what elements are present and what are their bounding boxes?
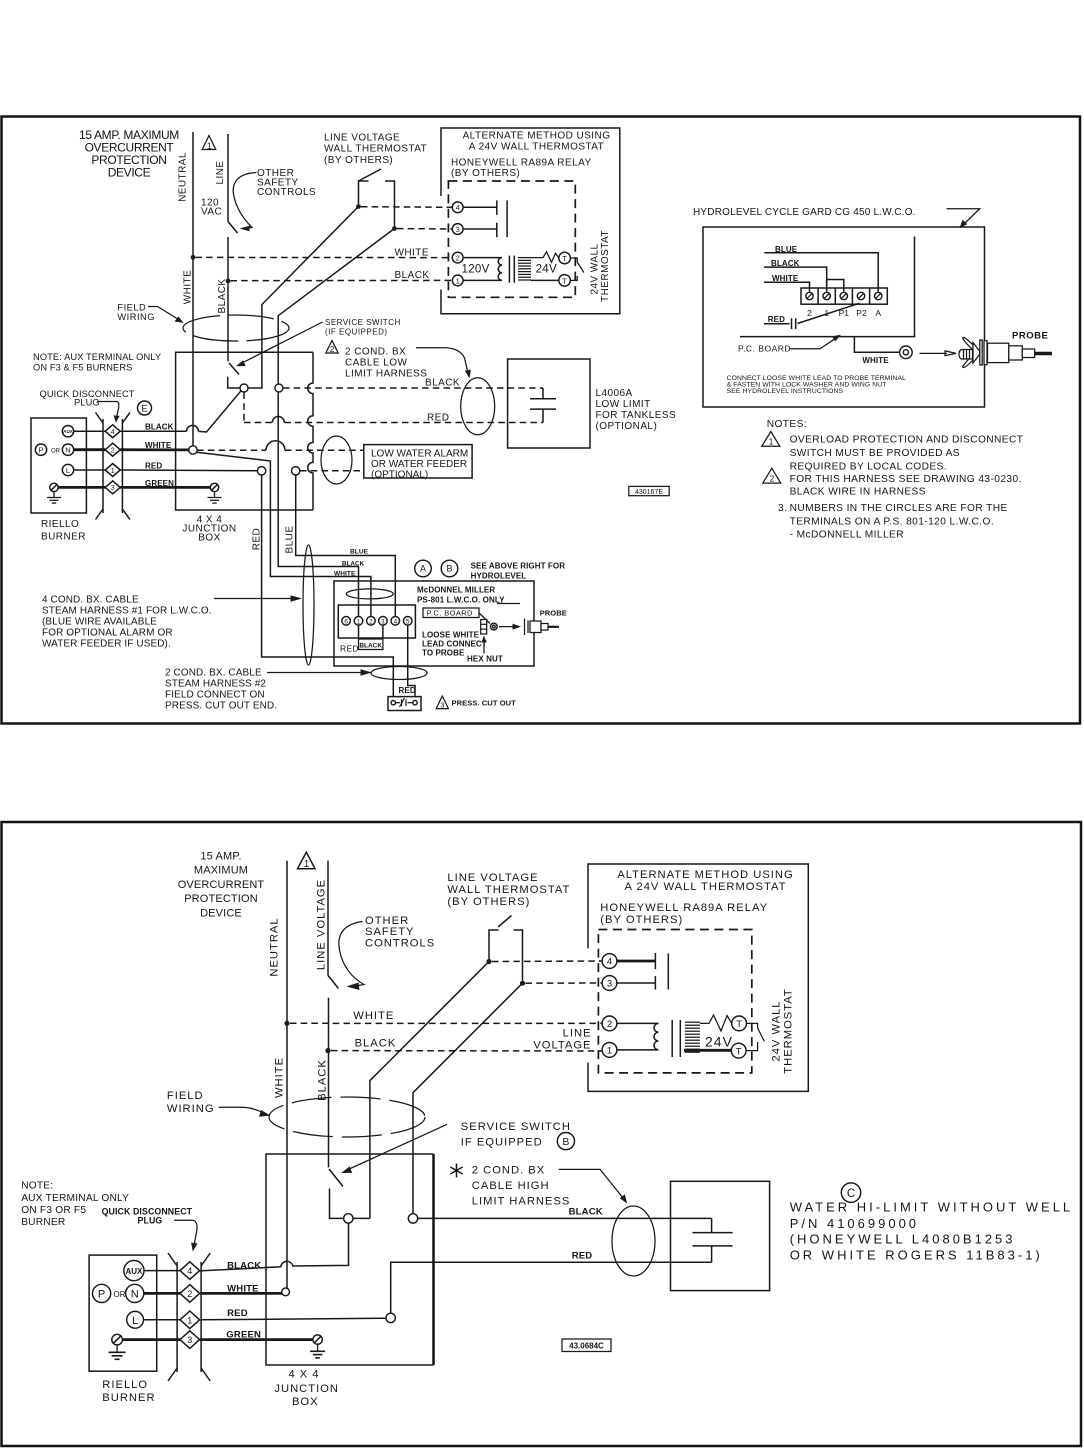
plug pin 2 diamond	[105, 443, 120, 456]
svg-text:1: 1	[187, 1315, 192, 1325]
svg-text:WHITE: WHITE	[395, 247, 429, 258]
svg-text:PLUG: PLUG	[138, 1216, 163, 1226]
svg-text:LINE: LINE	[215, 160, 226, 184]
relay contact K1 (terminal 4)	[463, 200, 497, 215]
wire N to plug 2 (bottom)	[144, 1292, 180, 1295]
svg-text:HYDROLEVEL: HYDROLEVEL	[471, 572, 527, 581]
warning triangle 3	[436, 696, 448, 710]
circled B (service switch)	[557, 1133, 574, 1150]
label LOOSE WHITE LEAD CONNECT TO PROBE	[422, 630, 487, 657]
leader curve to safety switch (bottom)	[339, 922, 364, 991]
wire L to plug 1	[74, 469, 106, 471]
svg-text:(BY OTHERS): (BY OTHERS)	[600, 914, 683, 926]
junction box ground symbol (bottom)	[310, 1344, 325, 1358]
label BLUE + wire to A	[764, 245, 878, 292]
svg-text:SEE ABOVE RIGHT FOR: SEE ABOVE RIGHT FOR	[471, 562, 566, 571]
transformer T1 primary coil 120V	[463, 258, 502, 281]
relay terminal 2 (bottom)	[602, 1016, 617, 1031]
svg-text:LOOSE WHITE: LOOSE WHITE	[422, 630, 480, 639]
relay terminal 4	[452, 202, 463, 213]
service switch blade (bottom)	[329, 1169, 343, 1187]
wire AUX to plug 4 (bottom)	[144, 1270, 180, 1272]
svg-text:BLACK: BLACK	[425, 377, 460, 388]
node dot thermostat left (bottom)	[486, 959, 491, 964]
svg-text:4: 4	[394, 618, 398, 625]
probe symbol (mcdonnel)	[525, 619, 560, 636]
svg-text:6: 6	[344, 618, 348, 625]
hex nut (mcdonnel)	[481, 620, 487, 635]
label OTHER SAFETY CONTROLS	[257, 168, 316, 198]
drawing number 43.0684C	[562, 1339, 611, 1352]
relay U2 outer box (bottom)	[588, 864, 808, 1091]
label 4 X 4 JUNCTION BOX (bottom)	[274, 1369, 339, 1408]
transformer T1 secondary coil 24V	[518, 258, 531, 280]
svg-text:4: 4	[187, 1266, 192, 1276]
leader to plug	[97, 402, 120, 423]
dashed wire white to low water alarm	[197, 449, 364, 451]
red wire to press cut out	[262, 475, 394, 697]
relay contact common bar	[506, 200, 508, 237]
svg-text:BLACK: BLACK	[355, 1038, 397, 1050]
svg-text:5: 5	[406, 618, 410, 625]
relay terminal 1	[452, 275, 463, 286]
dashed wire to relay terminal 3 (bottom)	[526, 982, 603, 984]
leader to field wiring ellipse	[148, 307, 184, 323]
svg-text:WATER HI-LIMIT WITHOUT WELL: WATER HI-LIMIT WITHOUT WELL	[790, 1200, 1073, 1215]
svg-text:FOR OPTIONAL ALARM OR: FOR OPTIONAL ALARM OR	[42, 628, 173, 639]
svg-text:PS-801 L.W.C.O. ONLY: PS-801 L.W.C.O. ONLY	[417, 595, 505, 604]
red harness wire to hi-limit box	[391, 1262, 712, 1313]
svg-text:TERMINALS ON A P.S. 801-120 L.: TERMINALS ON A P.S. 801-120 L.W.C.O.	[790, 516, 994, 527]
press cut out contacts	[391, 698, 417, 707]
svg-text:NOTE: AUX TERMINAL ONLY: NOTE: AUX TERMINAL ONLY	[33, 352, 161, 362]
ground symbol junction box	[208, 492, 222, 504]
svg-text:WHITE: WHITE	[145, 441, 172, 450]
leader to steam harness 2	[267, 669, 372, 675]
svg-text:PLUG: PLUG	[74, 398, 100, 408]
drawing number 430167E	[629, 486, 669, 495]
burner ground symbol (bottom)	[109, 1345, 126, 1359]
svg-text:RED: RED	[227, 1308, 248, 1319]
svg-text:4: 4	[456, 203, 460, 212]
thermostat terminal T upper (bottom)	[732, 1016, 747, 1031]
svg-text:3.: 3.	[778, 503, 787, 514]
svg-text:GREEN: GREEN	[226, 1330, 261, 1341]
svg-text:DEVICE: DEVICE	[200, 907, 242, 919]
hi-limit contact plates	[692, 1218, 732, 1262]
svg-text:STEAM HARNESS #1 FOR L.W.C.O.: STEAM HARNESS #1 FOR L.W.C.O.	[42, 606, 212, 617]
jumper terminal 1 to P1	[827, 280, 844, 292]
line wire lower segment	[227, 237, 229, 361]
label LOW WATER ALARM OR WATER FEEDER (OPTIONAL)	[371, 448, 468, 480]
thermostat terminal T lower	[559, 275, 571, 287]
24V thermostat switch blade	[570, 258, 583, 280]
svg-text:RED: RED	[399, 686, 416, 695]
hydrolevel small note text	[727, 375, 906, 395]
svg-text:3: 3	[187, 1335, 192, 1345]
warning triangle 1 (bottom)	[298, 852, 316, 870]
svg-text:OR WATER FEEDER: OR WATER FEEDER	[371, 459, 467, 470]
svg-text:SERVICE SWITCH: SERVICE SWITCH	[325, 318, 401, 327]
svg-text:OR: OR	[51, 448, 61, 454]
plug pin 1 diamond (bottom)	[180, 1311, 200, 1329]
L4006A aquastat box	[508, 359, 590, 448]
svg-text:BLACK: BLACK	[395, 270, 430, 281]
svg-text:THERMOSTAT: THERMOSTAT	[600, 230, 611, 302]
svg-text:RED: RED	[427, 412, 449, 423]
circled C	[841, 1183, 860, 1202]
svg-text:1: 1	[357, 618, 361, 625]
svg-text:NEUTRAL: NEUTRAL	[178, 152, 189, 202]
label 4 COND. BX. CABLE STEAM HARNESS #1	[42, 595, 212, 650]
svg-text:RED: RED	[572, 1250, 593, 1261]
white wire to McDonnel	[197, 452, 371, 616]
relay contact K2 (terminal 3)	[463, 223, 497, 238]
label 2 COND. BX. CABLE STEAM HARNESS #2	[165, 668, 277, 712]
svg-text:RED: RED	[252, 528, 263, 550]
label NOTE: AUX TERMINAL ONLY	[33, 352, 161, 373]
svg-text:CONTROLS: CONTROLS	[257, 187, 316, 198]
junction box (bottom)	[266, 1154, 434, 1365]
svg-text:24V: 24V	[705, 1034, 733, 1050]
safety controls switch blade (bottom)	[328, 975, 339, 988]
dashed wire WHITE to relay (bottom)	[290, 1022, 602, 1024]
svg-text:T: T	[736, 1019, 742, 1030]
notes text block	[778, 435, 1023, 541]
AUX terminal (bottom)	[124, 1261, 144, 1281]
svg-text:PROTECTION: PROTECTION	[184, 893, 258, 905]
svg-text:3: 3	[111, 485, 115, 492]
TOP DIAGRAM border frame	[2, 117, 1081, 724]
node dot thermostat right pole	[392, 226, 397, 231]
svg-text:PRESS. CUT OUT END.: PRESS. CUT OUT END.	[165, 701, 277, 712]
dashed wire BLACK to relay (bottom)	[331, 1050, 602, 1052]
svg-text:4: 4	[111, 429, 115, 436]
CG450 screw terminal 2	[806, 292, 813, 299]
svg-text:P: P	[38, 446, 43, 455]
wire ground to plug 3 (bottom)	[122, 1338, 180, 1341]
dashed wire blue to low water alarm	[300, 470, 364, 472]
svg-text:CABLE HIGH: CABLE HIGH	[472, 1180, 550, 1192]
svg-text:BURNER: BURNER	[41, 532, 86, 543]
dashed wire to relay terminal 4 (bottom)	[492, 960, 602, 963]
svg-text:WHITE: WHITE	[862, 356, 889, 365]
svg-text:REQUIRED BY LOCAL CODES.: REQUIRED BY LOCAL CODES.	[790, 462, 947, 473]
svg-text:43.0684C: 43.0684C	[569, 1342, 604, 1351]
wire black vertical B lower with hop	[278, 392, 358, 616]
svg-text:A: A	[875, 308, 881, 318]
svg-text:C: C	[847, 1188, 855, 1200]
svg-text:L: L	[66, 466, 70, 475]
ground screw in junction box	[210, 483, 218, 491]
svg-text:OVERLOAD PROTECTION AND DISCON: OVERLOAD PROTECTION AND DISCONNECT	[790, 435, 1024, 446]
CG450 screw terminal 1	[823, 292, 830, 299]
quick disconnect plug rails	[96, 413, 130, 520]
svg-text:FOR TANKLESS: FOR TANKLESS	[596, 410, 677, 421]
svg-text:2: 2	[330, 345, 335, 354]
node dot white tap (bottom)	[284, 1021, 289, 1026]
svg-text:TO PROBE: TO PROBE	[422, 648, 465, 657]
junction box ground screw (bottom)	[313, 1335, 322, 1344]
svg-text:(BY OTHERS): (BY OTHERS)	[447, 896, 530, 908]
black harness wire to hi-limit box	[418, 1217, 712, 1219]
svg-text:BURNER: BURNER	[102, 1392, 155, 1404]
svg-text:FIELD: FIELD	[167, 1090, 204, 1102]
svg-text:MAXIMUM: MAXIMUM	[194, 865, 248, 877]
title leader mark	[947, 209, 980, 229]
svg-text:LIMIT HARNESS: LIMIT HARNESS	[472, 1195, 571, 1207]
leader pc board to lead	[479, 613, 490, 624]
svg-text:A: A	[420, 564, 426, 574]
CG450 terminal strip	[801, 288, 887, 304]
svg-text:2: 2	[187, 1289, 192, 1299]
svg-text:VOLTAGE: VOLTAGE	[533, 1040, 591, 1052]
svg-text:2: 2	[607, 1019, 612, 1030]
svg-text:B: B	[562, 1136, 569, 1148]
svg-text:CONTROLS: CONTROLS	[365, 937, 435, 949]
svg-text:ALTERNATE METHOD USING: ALTERNATE METHOD USING	[617, 869, 793, 881]
water hi-limit box	[671, 1181, 770, 1290]
svg-text:OTHER: OTHER	[365, 915, 409, 927]
relay U1 outer box	[441, 128, 620, 314]
L terminal	[62, 464, 73, 475]
arrow to probe	[920, 351, 957, 356]
wire plug1 red to junction circle (bottom)	[200, 1318, 386, 1320]
svg-text:WIRING: WIRING	[167, 1103, 215, 1115]
terminal circle service switch (bottom)	[344, 1214, 353, 1223]
label L4006A LOW LIMIT FOR TANKLESS (OPTIONAL)	[596, 388, 677, 432]
transformer T1 core	[509, 256, 514, 283]
svg-text:BLACK: BLACK	[227, 1261, 261, 1272]
terminal circle E2	[275, 384, 283, 392]
svg-text:WHITE: WHITE	[334, 570, 356, 577]
svg-text:LIMIT HARNESS: LIMIT HARNESS	[345, 369, 427, 380]
burner ground symbol	[47, 492, 61, 504]
svg-text:WHITE: WHITE	[353, 1010, 394, 1022]
svg-text:3: 3	[456, 225, 460, 234]
ring terminal (mcdonnel)	[490, 623, 497, 630]
McDonnel terminal 3	[379, 617, 388, 626]
McDonnel Miller box	[334, 581, 534, 666]
svg-text:LINE: LINE	[563, 1028, 592, 1040]
svg-text:(BLUE WIRE AVAILABLE: (BLUE WIRE AVAILABLE	[42, 617, 157, 628]
svg-text:NOTE:: NOTE:	[21, 1181, 53, 1192]
label FIELD WIRING (bottom)	[167, 1090, 215, 1115]
P.C. board outline	[740, 237, 915, 337]
cable bundle ellipse in McDonnel box	[346, 589, 393, 599]
svg-text:2: 2	[770, 473, 775, 483]
svg-text:L4006A: L4006A	[596, 388, 633, 399]
wire AUX to plug 4	[74, 430, 106, 432]
svg-text:AUX: AUX	[125, 1267, 143, 1276]
svg-text:AUX TERMINAL ONLY: AUX TERMINAL ONLY	[21, 1193, 129, 1204]
line voltage thermostat symbol (bottom)	[489, 916, 523, 981]
label LINE VOLTAGE (near relay)	[533, 1028, 591, 1052]
McDonnel terminal strip	[338, 605, 415, 638]
N terminal	[62, 444, 73, 455]
svg-text:NEUTRAL: NEUTRAL	[269, 917, 281, 976]
svg-text:OR WHITE ROGERS 11B83-1): OR WHITE ROGERS 11B83-1)	[790, 1248, 1043, 1263]
svg-text:T: T	[736, 1046, 742, 1057]
svg-text:RED: RED	[340, 643, 359, 653]
low water alarm box	[364, 445, 472, 478]
svg-text:BLACK: BLACK	[217, 278, 228, 313]
svg-text:(IF EQUIPPED): (IF EQUIPPED)	[325, 327, 388, 336]
svg-text:HYDROLEVEL CYCLE GARD CG 450 L: HYDROLEVEL CYCLE GARD CG 450 L.W.C.O.	[693, 207, 916, 218]
svg-text:WALL THERMOSTAT: WALL THERMOSTAT	[324, 144, 427, 155]
label QUICK DISCONNECT PLUG (bottom)	[102, 1207, 193, 1226]
svg-text:3: 3	[381, 618, 385, 625]
svg-text:WHITE: WHITE	[183, 270, 194, 304]
relay terminal 4 (bottom)	[602, 954, 617, 969]
svg-text:2: 2	[456, 254, 460, 263]
svg-text:1: 1	[111, 468, 115, 475]
label BLACK + wire to 1	[764, 259, 827, 291]
wire diagonal A to junction box	[262, 207, 359, 378]
svg-text:3: 3	[440, 701, 444, 710]
blue wire to McDonnel	[296, 475, 396, 616]
svg-text:A 24V WALL THERMOSTAT: A 24V WALL THERMOSTAT	[625, 881, 787, 893]
svg-text:2: 2	[807, 308, 812, 318]
svg-text:BURNER: BURNER	[21, 1217, 65, 1228]
leader to service switch (bottom)	[341, 1124, 447, 1173]
terminal designators 2 1 P1 P2 A	[807, 308, 881, 318]
terminal circle red (bottom)	[386, 1313, 395, 1322]
overcurrent device heading (bottom)	[178, 851, 265, 920]
terminal circle white nut (bottom)	[282, 1288, 290, 1296]
svg-text:24V WALL: 24V WALL	[590, 243, 601, 294]
terminal circle white nut	[189, 446, 197, 454]
svg-text:- McDONNELL MILLER: - McDONNELL MILLER	[790, 529, 904, 540]
line voltage wire mid segment	[328, 998, 330, 1168]
svg-text:BLACK: BLACK	[317, 1059, 329, 1101]
label NOTE: AUX TERMINAL ONLY (bottom)	[21, 1181, 129, 1228]
P terminal (bottom)	[93, 1284, 111, 1302]
svg-text:CABLE LOW: CABLE LOW	[345, 358, 408, 369]
svg-text:McDONNEL MILLER: McDONNEL MILLER	[417, 585, 495, 594]
wire plug2 white to junction	[120, 448, 189, 451]
wire plug2 white to nut (bottom)	[200, 1292, 282, 1295]
plug pin 4 diamond	[105, 425, 120, 438]
steam harness #2 ellipse	[371, 667, 427, 680]
svg-text:N: N	[65, 446, 70, 455]
svg-text:VAC: VAC	[201, 207, 222, 218]
label FIELD WIRING	[117, 303, 155, 322]
plug pin 2 diamond (bottom)	[180, 1285, 200, 1303]
dashed wire thermostat to relay terminal 3	[397, 228, 452, 230]
svg-text:ALTERNATE METHOD USING: ALTERNATE METHOD USING	[463, 130, 611, 141]
svg-text:FIELD CONNECT ON: FIELD CONNECT ON	[165, 690, 265, 701]
node dot thermostat left pole	[356, 204, 361, 209]
relay heading (bottom)	[600, 869, 793, 926]
plug pin 3 diamond	[105, 481, 120, 494]
svg-text:2: 2	[111, 448, 115, 455]
note triangle 1	[762, 432, 780, 447]
svg-text:RIELLO: RIELLO	[41, 519, 79, 530]
relay contact K1 (bottom terminal 4)	[617, 953, 655, 969]
svg-text:T: T	[562, 276, 567, 285]
svg-text:WHITE: WHITE	[227, 1284, 259, 1295]
svg-text:B: B	[446, 564, 452, 574]
L terminal (bottom)	[127, 1311, 144, 1328]
label WHITE + wire to 2	[764, 274, 810, 291]
leader curve to safety switch	[233, 173, 256, 232]
svg-text:IF EQUIPPED: IF EQUIPPED	[461, 1137, 543, 1149]
svg-text:NOTES:: NOTES:	[767, 419, 807, 430]
wire U link service switch to diagonal A	[228, 377, 262, 388]
CG450 screw terminal A	[875, 292, 882, 299]
svg-text:FOR THIS HARNESS SEE DRAWING 4: FOR THIS HARNESS SEE DRAWING 43-0230.	[790, 474, 1022, 485]
label 4 X 4 JUNCTION BOX	[182, 515, 236, 544]
svg-text:RED: RED	[145, 462, 162, 471]
P.C. BOARD label box (mcdonnel)	[423, 608, 479, 618]
relay terminal 3 (bottom)	[602, 976, 617, 991]
transformer T2 secondary coil (bottom)	[685, 1022, 700, 1052]
svg-text:4 X 4: 4 X 4	[288, 1369, 319, 1381]
black jumper label box terminals 1-3	[359, 625, 383, 649]
Hydrolevel CG450 box	[703, 227, 985, 407]
svg-text:HEX NUT: HEX NUT	[467, 654, 503, 663]
circled E	[138, 401, 152, 415]
line wire upper segment	[227, 134, 229, 222]
svg-text:1: 1	[456, 276, 460, 285]
svg-text:RIELLO: RIELLO	[102, 1379, 148, 1391]
label 24V WALL THERMOSTAT (rotated)	[590, 230, 612, 302]
warning triangle 1	[202, 136, 216, 151]
svg-text:E: E	[141, 403, 147, 413]
leader to high limit harness	[559, 1169, 627, 1203]
thermostat terminal T upper	[559, 252, 571, 264]
ring terminal	[900, 346, 913, 359]
leader to low limit harness	[416, 348, 471, 379]
leader to field wiring (bottom)	[219, 1107, 271, 1117]
heat anticipator zigzag (bottom)	[700, 1015, 732, 1031]
svg-text:ON F3 & F5 BURNERS: ON F3 & F5 BURNERS	[33, 363, 132, 373]
junction box right edge with wire pass-through bumps	[308, 352, 313, 510]
McDonnel terminal 1	[354, 617, 363, 626]
svg-text:LEAD CONNECT: LEAD CONNECT	[422, 639, 487, 648]
svg-text:(OPTIONAL): (OPTIONAL)	[596, 421, 658, 432]
svg-text:LOW LIMIT: LOW LIMIT	[596, 399, 651, 410]
N terminal (bottom)	[126, 1284, 144, 1302]
svg-text:SERVICE SWITCH: SERVICE SWITCH	[461, 1121, 571, 1133]
svg-text:(HONEYWELL L4080B1253: (HONEYWELL L4080B1253	[790, 1232, 1016, 1247]
plug pin 3 diamond (bottom)	[180, 1331, 200, 1349]
burner ground screw (bottom)	[112, 1334, 123, 1345]
relay dashed enclosure	[448, 181, 575, 297]
svg-text:DEVICE: DEVICE	[108, 166, 151, 180]
L4006A contact plates	[530, 388, 556, 423]
other safety controls switch blade	[228, 222, 238, 234]
wire plug1 red to junction	[120, 469, 257, 472]
svg-text:OR: OR	[114, 1290, 126, 1299]
svg-text:NUMBERS IN THE CIRCLES ARE FOR: NUMBERS IN THE CIRCLES ARE FOR THE	[790, 503, 1008, 514]
wire secondary bottom to T	[531, 279, 559, 281]
svg-text:1: 1	[207, 141, 212, 151]
svg-text:A 24V WALL THERMOSTAT: A 24V WALL THERMOSTAT	[469, 141, 604, 152]
svg-text:(OPTIONAL): (OPTIONAL)	[371, 469, 428, 480]
thick wire secondary to T lower (bottom)	[684, 1049, 731, 1052]
svg-text:1: 1	[769, 437, 774, 447]
svg-text:WATER FEEDER IF USED).: WATER FEEDER IF USED).	[42, 639, 171, 650]
svg-text:BLUE: BLUE	[285, 526, 296, 554]
quick disconnect plug rails (bottom)	[168, 1253, 210, 1381]
steam harness #1 ellipse	[303, 545, 314, 665]
svg-text:BLACK: BLACK	[359, 642, 382, 649]
dashed wire WHITE to relay terminal 2	[196, 256, 453, 258]
low water alarm harness ellipse	[321, 436, 352, 484]
dashed harness wire BLACK from E2	[283, 387, 543, 389]
